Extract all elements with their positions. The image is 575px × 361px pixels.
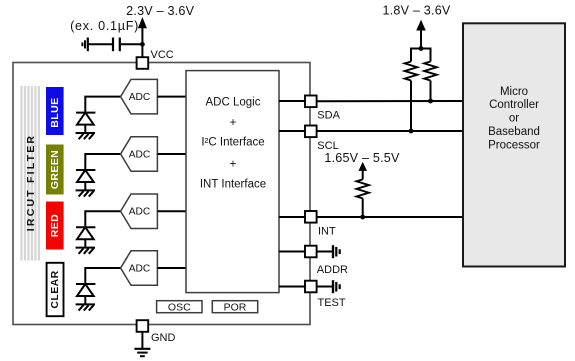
wire supply node split (411, 49, 431, 62)
svg-text:ADC Logic: ADC Logic (206, 96, 261, 108)
wire TEST pin to ground (317, 286, 333, 288)
svg-text:GND: GND (151, 332, 176, 344)
node R2-SDA junction (428, 99, 433, 104)
filter chip CLEAR (47, 263, 64, 316)
IRCUT filter striped band (20, 86, 40, 261)
filter chip BLUE (46, 87, 64, 135)
photodiode D4 (76, 284, 95, 304)
svg-text:I²C Interface: I²C Interface (201, 137, 264, 149)
power arrow 1.8V supply (417, 21, 425, 49)
wire GND pin to earth (141, 332, 143, 349)
node R3-INT junction (360, 215, 365, 220)
pin ADDR square (305, 246, 317, 258)
svg-text:BLUE: BLUE (49, 98, 61, 128)
wire photodiode D1 to ADC1 (85, 97, 120, 113)
svg-text:ADC: ADC (129, 207, 151, 218)
wire INT pin to microcontroller (317, 216, 464, 218)
ground (D4, hatched) (76, 304, 95, 310)
node VCC junction (140, 42, 145, 47)
ADC2 converter (121, 137, 158, 172)
svg-text:VCC: VCC (151, 49, 174, 61)
svg-text:POR: POR (224, 302, 247, 314)
wire R3 to INT line (362, 198, 364, 217)
node R1-SCL junction (409, 129, 414, 134)
ground (D2, hatched) (76, 190, 95, 196)
photodiode D3 (76, 227, 95, 247)
filter chip RED (46, 202, 64, 250)
wire photodiode D3 to ADC3 (85, 211, 120, 227)
photodiode D1 (76, 113, 95, 133)
svg-text:1.8V – 3.6V: 1.8V – 3.6V (382, 3, 450, 17)
wire ADC4 to core (157, 267, 186, 269)
node supply junction (419, 46, 424, 51)
wire photodiode D2 to ADC2 (85, 154, 120, 170)
wire VCC node to pin (141, 44, 143, 57)
svg-text:IRCUT FILTER: IRCUT FILTER (25, 134, 37, 231)
wire ADC1 to core (157, 96, 186, 98)
svg-text:Controller: Controller (489, 99, 539, 111)
pin VCC square (137, 57, 149, 69)
photodiode D2 (76, 170, 95, 190)
svg-text:+: + (230, 117, 237, 129)
oscillator OSC (157, 301, 202, 313)
ground (capacitor, sideways) (82, 38, 87, 52)
ADC3 converter (121, 194, 158, 229)
svg-text:INT Interface: INT Interface (200, 179, 266, 191)
wire core to ADDR pin (279, 251, 305, 253)
wire ADDR pin to ground (317, 251, 333, 253)
svg-text:or: or (509, 113, 519, 125)
pin SCL square (305, 126, 317, 138)
wire core to INT pin (279, 216, 305, 218)
svg-text:ADC: ADC (129, 263, 151, 274)
pin GND square (137, 320, 149, 332)
svg-text:ADDR: ADDR (317, 264, 348, 276)
ground (D1, hatched) (76, 133, 95, 139)
svg-text:TEST: TEST (318, 297, 346, 309)
svg-text:Micro: Micro (500, 86, 528, 98)
svg-text:OSC: OSC (168, 302, 191, 314)
wire core to SCL pin (279, 130, 305, 132)
wire SCL pin to microcontroller (317, 130, 464, 132)
wire core to TEST pin (279, 286, 305, 288)
pin TEST square (305, 281, 317, 293)
pin SDA square (305, 96, 317, 108)
wire ADC3 to core (157, 210, 186, 212)
svg-text:Baseband: Baseband (488, 126, 540, 138)
svg-text:INT: INT (318, 225, 336, 237)
capacitor C1 (113, 38, 120, 52)
svg-text:GREEN: GREEN (49, 150, 61, 189)
ground (GND, earth) (134, 349, 150, 356)
svg-text:2.3V – 3.6V: 2.3V – 3.6V (126, 4, 194, 18)
wire R2 to SDA line (430, 81, 432, 102)
ADC1 converter (121, 79, 158, 114)
core logic block U1 (186, 71, 279, 293)
wire SDA pin to microcontroller (317, 100, 464, 102)
svg-text:+: + (230, 158, 237, 170)
svg-text:SCL: SCL (317, 140, 338, 152)
resistor R3 (INT pull-up) (357, 179, 369, 198)
wire ADC2 to core (157, 153, 186, 155)
resistor R2 (SDA pull-up) (424, 62, 437, 81)
svg-text:(ex. 0.1µF): (ex. 0.1µF) (70, 19, 139, 33)
power arrow 1.65V supply (359, 163, 366, 179)
svg-text:ADC: ADC (129, 92, 151, 103)
svg-text:ADC: ADC (129, 149, 151, 160)
filter chip GREEN (46, 145, 64, 195)
wire cap ground to capacitor (89, 43, 113, 45)
svg-text:CLEAR: CLEAR (49, 270, 61, 308)
wire R1 to SCL line (410, 81, 412, 132)
power arrow VCC supply (139, 19, 147, 45)
ground (D3, hatched) (76, 248, 95, 254)
svg-text:RED: RED (49, 214, 61, 237)
sensor IC outer box (13, 63, 310, 325)
microcontroller block U2 (463, 23, 565, 266)
pin INT square (305, 211, 317, 223)
wire capacitor to VCC node (121, 43, 143, 45)
resistor R1 (SCL pull-up) (405, 62, 418, 81)
power-on-reset POR (212, 301, 257, 313)
ground (TEST, sideways) (333, 280, 340, 293)
svg-text:SDA: SDA (317, 109, 340, 121)
wire core to SDA pin (279, 100, 305, 102)
svg-text:Processor: Processor (488, 139, 540, 151)
wire photodiode D4 to ADC4 (85, 268, 120, 284)
ground (ADDR, sideways) (333, 245, 340, 258)
ADC4 converter (121, 251, 158, 285)
